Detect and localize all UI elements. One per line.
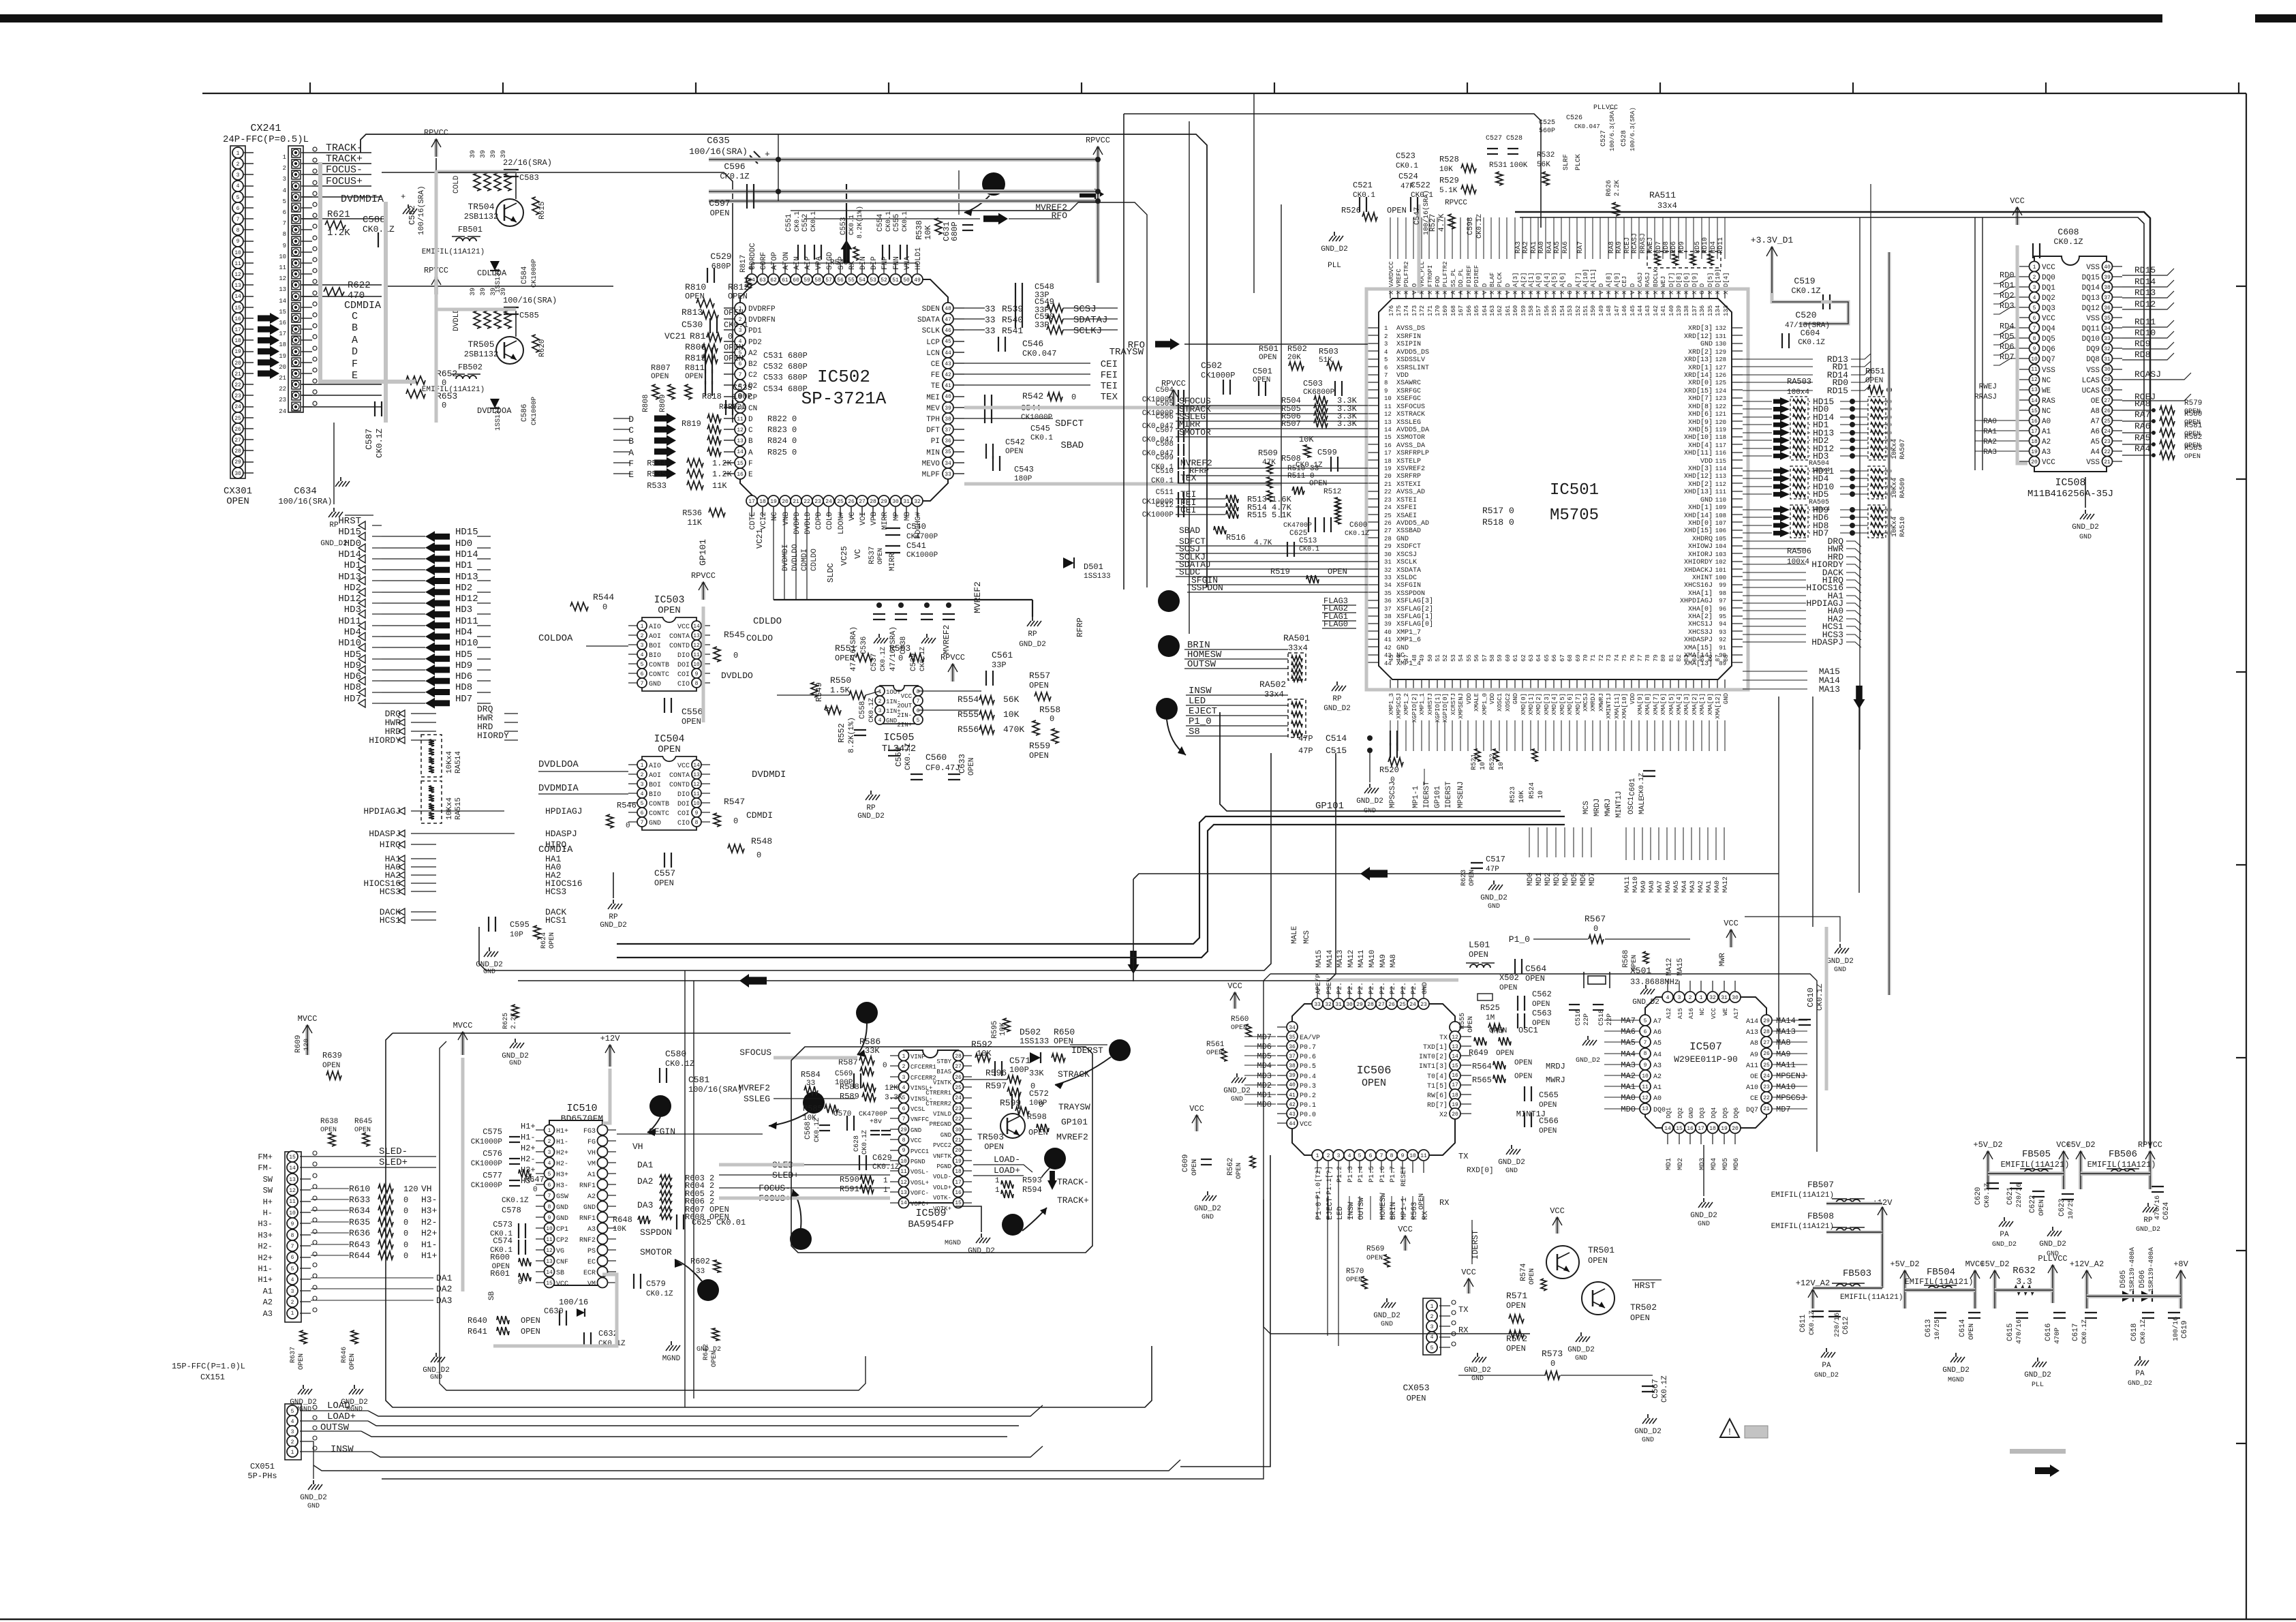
- svg-text:22: 22: [1763, 1095, 1770, 1101]
- svg-text:100P: 100P: [1009, 1065, 1029, 1075]
- svg-text:0: 0: [533, 1186, 538, 1194]
- svg-text:SLED+: SLED+: [379, 1157, 408, 1168]
- svg-text:C547: C547: [1413, 207, 1422, 225]
- svg-text:XMRDJ: XMRDJ: [1590, 693, 1597, 711]
- svg-text:H3+: H3+: [556, 1172, 568, 1179]
- svg-text:0: 0: [1050, 714, 1054, 724]
- svg-text:RX: RX: [848, 260, 857, 270]
- svg-text:95: 95: [1719, 613, 1726, 620]
- svg-text:RP: RP: [866, 804, 876, 812]
- svg-text:HD11: HD11: [338, 616, 361, 627]
- svg-text:10Kx4: 10Kx4: [446, 797, 454, 820]
- svg-text:R822 0: R822 0: [767, 414, 797, 424]
- svg-text:165: 165: [1473, 305, 1480, 316]
- svg-text:11: 11: [289, 1199, 296, 1205]
- svg-text:10: 10: [1384, 395, 1392, 402]
- svg-text:1: 1: [236, 151, 240, 157]
- svg-text:RA2: RA2: [1522, 241, 1530, 254]
- svg-text:OPEN: OPEN: [682, 717, 701, 726]
- svg-text:AVDD5_DS: AVDD5_DS: [1396, 349, 1429, 356]
- svg-text:173: 173: [1411, 305, 1418, 316]
- svg-text:R532: R532: [1537, 151, 1555, 159]
- svg-text:H1-: H1-: [556, 1139, 568, 1146]
- svg-text:HOMESW: HOMESW: [1379, 1193, 1388, 1220]
- svg-text:OPEN: OPEN: [521, 1327, 540, 1336]
- svg-text:TR503: TR503: [977, 1132, 1004, 1142]
- svg-text:C596: C596: [724, 162, 745, 172]
- svg-text:OPEN: OPEN: [654, 878, 674, 888]
- svg-text:21: 21: [793, 499, 799, 505]
- svg-text:XMD[5]: XMD[5]: [1559, 693, 1566, 715]
- svg-text:0: 0: [403, 1251, 408, 1261]
- vertical bus x2745: [1870, 184, 1871, 383]
- svg-text:CONTA: CONTA: [669, 633, 690, 641]
- svg-text:R548: R548: [751, 836, 772, 846]
- svg-text:STBY: STBY: [936, 1058, 951, 1065]
- svg-text:XMA[5]: XMA[5]: [1668, 693, 1675, 715]
- svg-text:XSFLAG[3]: XSFLAG[3]: [1396, 597, 1433, 605]
- svg-text:CK0.1Z: CK0.1Z: [1345, 530, 1369, 538]
- svg-text:AOI: AOI: [649, 772, 661, 780]
- svg-text:134: 134: [1715, 305, 1721, 316]
- svg-text:76: 76: [1629, 654, 1636, 662]
- svg-text:21: 21: [2104, 459, 2111, 465]
- svg-text:XRD[13]: XRD[13]: [1684, 356, 1713, 364]
- svg-text:HCS3: HCS3: [545, 887, 566, 897]
- svg-text:MD6: MD6: [1580, 872, 1588, 886]
- svg-text:15: 15: [1384, 434, 1392, 441]
- svg-text:MD2: MD2: [1677, 1158, 1685, 1170]
- svg-text:DQ9: DQ9: [2086, 346, 2100, 354]
- svg-text:DQ14: DQ14: [2082, 284, 2100, 292]
- svg-text:0: 0: [403, 1206, 408, 1216]
- svg-text:CONTB: CONTB: [649, 662, 669, 669]
- svg-text:SCLKJ: SCLKJ: [1073, 326, 1102, 337]
- svg-text:37: 37: [1289, 1054, 1296, 1060]
- svg-text:43: 43: [945, 361, 951, 367]
- svg-text:H3-: H3-: [421, 1195, 437, 1205]
- svg-text:2.2K: 2.2K: [1614, 180, 1621, 196]
- svg-text:GND: GND: [1700, 341, 1713, 348]
- svg-text:XRWEJ: XRWEJ: [1660, 276, 1667, 294]
- svg-text:B: B: [628, 436, 634, 446]
- svg-text:6: 6: [641, 810, 644, 816]
- svg-text:COLD: COLD: [453, 175, 461, 194]
- svg-text:25: 25: [2104, 418, 2111, 425]
- svg-text:MD0: MD0: [1527, 872, 1535, 886]
- svg-text:25: 25: [234, 416, 241, 422]
- svg-text:141: 141: [1660, 305, 1667, 316]
- svg-text:DQ12: DQ12: [2082, 305, 2100, 313]
- svg-text:VOFC+: VOFC+: [910, 1201, 929, 1208]
- svg-text:H1+: H1+: [421, 1251, 438, 1261]
- svg-text:A1: A1: [1653, 1084, 1662, 1092]
- svg-text:XSFGIN: XSFGIN: [1396, 582, 1421, 590]
- svg-text:7: 7: [283, 220, 286, 227]
- svg-text:A0: A0: [1653, 1095, 1662, 1103]
- svg-text:DQ6: DQ6: [1733, 1107, 1740, 1118]
- wire box around TR blocks: [382, 172, 733, 423]
- svg-text:7: 7: [739, 372, 742, 378]
- svg-text:XHINT: XHINT: [1692, 575, 1713, 582]
- svg-text:HD14: HD14: [338, 549, 361, 560]
- svg-text:10Kx4: 10Kx4: [1891, 439, 1899, 459]
- R520 0: [1388, 758, 1403, 766]
- svg-text:R819: R819: [682, 419, 701, 429]
- svg-text:GND_D2: GND_D2: [1019, 641, 1046, 649]
- svg-text:C514: C514: [1326, 733, 1347, 744]
- svg-text:FB507: FB507: [1807, 1180, 1834, 1190]
- svg-text:33: 33: [985, 326, 996, 336]
- svg-text:DQ7: DQ7: [1746, 1107, 1758, 1114]
- svg-text:PA: PA: [2000, 1231, 2009, 1239]
- svg-text:MD0: MD0: [1257, 1100, 1272, 1110]
- svg-text:MPSENJ: MPSENJ: [1457, 781, 1465, 808]
- svg-text:A2: A2: [263, 1298, 273, 1307]
- svg-text:R609: R609: [294, 1035, 303, 1053]
- svg-text:38: 38: [1289, 1063, 1296, 1069]
- svg-text:VCC: VCC: [901, 693, 913, 700]
- svg-text:SB: SB: [556, 1270, 564, 1277]
- svg-text:129: 129: [1715, 349, 1726, 356]
- svg-text:78: 78: [1644, 654, 1651, 662]
- svg-text:100/16(SRA): 100/16(SRA): [1422, 190, 1430, 235]
- svg-text:GND_D2: GND_D2: [1373, 1312, 1400, 1320]
- svg-text:102: 102: [1715, 559, 1726, 566]
- svg-text:XSCLK: XSCLK: [1396, 559, 1417, 566]
- svg-text:112: 112: [1715, 481, 1726, 488]
- svg-text:MP1-1: MP1-1: [1400, 1197, 1409, 1220]
- svg-text:27: 27: [1763, 1040, 1770, 1046]
- svg-text:113: 113: [1715, 473, 1726, 480]
- svg-text:MVREF2: MVREF2: [973, 581, 983, 613]
- svg-text:38: 38: [945, 416, 951, 423]
- svg-text:A10: A10: [1746, 1084, 1758, 1092]
- svg-text:A1: A1: [587, 1172, 596, 1179]
- svg-text:61: 61: [1512, 654, 1519, 662]
- svg-text:XHD[13]: XHD[13]: [1684, 488, 1713, 496]
- svg-text:6: 6: [291, 1255, 294, 1261]
- svg-text:CDLDO: CDLDO: [753, 616, 782, 627]
- svg-text:10: 10: [234, 250, 241, 256]
- svg-text:R503: R503: [1319, 347, 1338, 356]
- svg-text:RWEJ: RWEJ: [1647, 237, 1655, 254]
- svg-text:XRD[14]: XRD[14]: [1684, 371, 1713, 380]
- gray wires IC502 right: [964, 406, 1281, 410]
- svg-text:74: 74: [1614, 654, 1621, 662]
- svg-text:MD6: MD6: [1733, 1158, 1741, 1170]
- svg-text:71: 71: [1590, 654, 1597, 662]
- svg-text:100/16: 100/16: [559, 1298, 588, 1307]
- svg-text:MD5: MD5: [1722, 1158, 1730, 1170]
- svg-text:HIRQ: HIRQ: [380, 840, 401, 850]
- svg-text:GND_D2: GND_D2: [2136, 1226, 2160, 1234]
- svg-text:33.8688MHz: 33.8688MHz: [1630, 977, 1679, 987]
- svg-text:10K: 10K: [923, 225, 933, 240]
- svg-text:100K: 100K: [1510, 162, 1528, 170]
- svg-text:MP: MP: [893, 512, 901, 521]
- svg-text:R639: R639: [322, 1051, 342, 1060]
- svg-text:CFCERR1: CFCERR1: [910, 1064, 936, 1071]
- connector CX151: [285, 1152, 301, 1322]
- svg-text:20: 20: [279, 364, 286, 371]
- svg-text:6: 6: [236, 206, 240, 212]
- svg-text:VSS: VSS: [2086, 315, 2100, 323]
- svg-text:OPEN: OPEN: [1231, 1024, 1247, 1032]
- svg-text:RA4: RA4: [2134, 444, 2151, 454]
- svg-text:SSLEG: SSLEG: [744, 1094, 770, 1104]
- svg-text:72: 72: [1598, 654, 1605, 662]
- svg-text:150: 150: [1590, 305, 1597, 316]
- IC501 right pins: [1732, 327, 1743, 328]
- svg-text:15: 15: [737, 461, 744, 467]
- svg-text:W29EE011P-90: W29EE011P-90: [1674, 1054, 1738, 1065]
- svg-text:A14: A14: [1746, 1018, 1758, 1026]
- svg-text:VSS: VSS: [2086, 367, 2100, 375]
- svg-text:51: 51: [1435, 654, 1441, 662]
- memory IC507 body: [1645, 997, 1766, 1128]
- svg-text:42: 42: [1289, 1102, 1296, 1108]
- svg-text:15: 15: [234, 305, 241, 311]
- svg-text:15: 15: [1452, 1063, 1458, 1069]
- svg-text:XHCS16J: XHCS16J: [1684, 582, 1713, 590]
- top black bar right segment: [2255, 14, 2296, 22]
- svg-text:159: 159: [1520, 305, 1527, 316]
- svg-text:XSFOCUS: XSFOCUS: [1396, 403, 1425, 411]
- svg-text:33: 33: [2104, 336, 2111, 342]
- svg-text:XHCS1J: XHCS1J: [1688, 621, 1713, 628]
- svg-text:VCC: VCC: [1724, 919, 1739, 928]
- svg-text:XOSC1: XOSC1: [1497, 693, 1503, 711]
- svg-text:12: 12: [1384, 411, 1392, 418]
- transistor TR502: [1582, 1282, 1614, 1315]
- svg-text:GND: GND: [1505, 1167, 1518, 1175]
- svg-text:16: 16: [1452, 1073, 1458, 1079]
- svg-text:100x4: 100x4: [1787, 388, 1809, 397]
- svg-text:6: 6: [548, 1182, 551, 1189]
- svg-text:C609: C609: [1182, 1154, 1190, 1172]
- svg-text:2IN+: 2IN+: [897, 722, 912, 729]
- svg-text:161: 161: [1505, 305, 1512, 316]
- svg-text:P0.0: P0.0: [1300, 1112, 1316, 1119]
- svg-text:0: 0: [626, 822, 630, 830]
- svg-text:50: 50: [1427, 654, 1434, 662]
- svg-text:GND: GND: [307, 1503, 320, 1510]
- svg-text:44: 44: [945, 350, 951, 356]
- svg-text:C599: C599: [1317, 448, 1337, 457]
- capacitor C556 OPEN: [664, 698, 665, 713]
- svg-text:9: 9: [291, 1221, 294, 1227]
- svg-text:27: 27: [1378, 1002, 1385, 1008]
- svg-text:MA0: MA0: [1714, 881, 1721, 893]
- svg-text:10Kx4: 10Kx4: [1891, 517, 1899, 537]
- svg-text:INSW: INSW: [1347, 1202, 1356, 1220]
- svg-text:6: 6: [917, 708, 920, 714]
- svg-text:D: D: [352, 346, 358, 358]
- svg-text:6: 6: [1369, 1153, 1373, 1159]
- gray bus DVDMDIA vertical: [384, 202, 388, 423]
- svg-text:5: 5: [548, 1172, 551, 1178]
- svg-text:MCS: MCS: [1303, 930, 1311, 944]
- svg-text:XSMOTOR: XSMOTOR: [1396, 434, 1425, 442]
- svg-text:P0.7: P0.7: [1300, 1044, 1316, 1052]
- svg-text:11: 11: [279, 264, 286, 271]
- svg-text:31: 31: [1384, 559, 1392, 566]
- svg-text:24: 24: [955, 1095, 962, 1101]
- svg-text:P1.7: P1.7: [1390, 1166, 1397, 1182]
- svg-text:XMD[7]: XMD[7]: [1575, 693, 1582, 715]
- svg-text:39: 39: [480, 150, 487, 158]
- svg-text:AVDD5_AD: AVDD5_AD: [1396, 520, 1429, 527]
- svg-text:10K: 10K: [1003, 709, 1020, 720]
- svg-text:MA4: MA4: [1621, 1050, 1636, 1059]
- svg-text:NC: NC: [2042, 408, 2051, 416]
- MGND ground IC509: [955, 1206, 981, 1232]
- svg-text:RA502: RA502: [1259, 679, 1286, 690]
- svg-text:XRA[4]: XRA[4]: [1544, 273, 1550, 294]
- svg-text:OPEN: OPEN: [1514, 1073, 1532, 1081]
- svg-text:1: 1: [291, 1450, 294, 1456]
- svg-text:CK1000P: CK1000P: [1021, 414, 1053, 422]
- svg-text:CK0.1: CK0.1: [1353, 192, 1375, 200]
- svg-text:19: 19: [1452, 1102, 1458, 1108]
- svg-text:C517: C517: [1486, 855, 1505, 864]
- svg-text:PLL: PLL: [1328, 262, 1341, 270]
- svg-text:58: 58: [814, 277, 821, 284]
- svg-text:C534 680P: C534 680P: [763, 384, 808, 394]
- svg-text:XMA[15]: XMA[15]: [1684, 644, 1713, 652]
- transistor block TR505: [434, 277, 438, 294]
- svg-text:101: 101: [1715, 567, 1726, 574]
- svg-text:H3-: H3-: [556, 1182, 568, 1190]
- svg-text:11: 11: [546, 1237, 553, 1243]
- svg-text:OPEN: OPEN: [984, 1142, 1004, 1152]
- svg-text:39: 39: [470, 150, 477, 158]
- svg-text:C568: C568: [804, 1122, 812, 1139]
- svg-text:13: 13: [234, 283, 241, 289]
- svg-text:DQ5: DQ5: [2042, 335, 2055, 343]
- svg-text:H2-: H2-: [556, 1161, 568, 1168]
- svg-text:R538: R538: [915, 220, 924, 240]
- svg-text:3: 3: [2033, 285, 2036, 291]
- svg-text:C526: C526: [1566, 114, 1582, 122]
- svg-text:OPEN: OPEN: [1532, 1000, 1550, 1009]
- svg-text:CK1000P: CK1000P: [471, 1160, 503, 1168]
- svg-text:FB504: FB504: [1927, 1267, 1955, 1278]
- svg-text:OPEN: OPEN: [1328, 567, 1347, 577]
- svg-text:MA5: MA5: [1621, 1038, 1636, 1047]
- svg-text:XHD[11]: XHD[11]: [1684, 449, 1713, 457]
- svg-text:DOI: DOI: [677, 662, 690, 669]
- svg-text:C629: C629: [872, 1153, 892, 1163]
- svg-text:XMD[0]: XMD[0]: [1520, 693, 1527, 715]
- svg-text:XHIORJ: XHIORJ: [1688, 551, 1713, 559]
- svg-text:A9: A9: [1750, 1052, 1758, 1059]
- svg-text:32: 32: [1709, 995, 1716, 1001]
- svg-text:GP101: GP101: [1315, 801, 1344, 812]
- svg-text:PLLVCC: PLLVCC: [2038, 1254, 2067, 1264]
- svg-text:24: 24: [1384, 504, 1392, 511]
- svg-text:3: 3: [1678, 995, 1681, 1001]
- ground below IC504: [613, 900, 614, 904]
- svg-text:INSW: INSW: [331, 1444, 354, 1455]
- svg-text:CONTA: CONTA: [669, 772, 690, 780]
- svg-text:R523: R523: [1510, 786, 1517, 803]
- svg-text:XSDATA: XSDATA: [1396, 567, 1421, 575]
- svg-text:16: 16: [279, 320, 286, 326]
- svg-text:FB502: FB502: [458, 363, 483, 372]
- svg-text:0: 0: [602, 602, 607, 612]
- svg-text:63: 63: [759, 277, 766, 284]
- svg-text:22: 22: [2104, 449, 2111, 455]
- svg-text:CK0.1: CK0.1: [794, 211, 801, 232]
- svg-text:DQ7: DQ7: [2042, 356, 2055, 364]
- svg-text:5P-PHs: 5P-PHs: [247, 1471, 277, 1481]
- svg-text:R824 0: R824 0: [767, 436, 797, 446]
- svg-text:10K: 10K: [613, 1225, 626, 1234]
- svg-text:GND_D2: GND_D2: [2072, 523, 2099, 532]
- svg-text:XRD[8]: XRD[8]: [1676, 273, 1683, 294]
- svg-text:D506: D506: [2139, 1270, 2147, 1288]
- svg-text:GND_D2: GND_D2: [300, 1494, 327, 1502]
- svg-text:XGPIO[1]: XGPIO[1]: [1435, 693, 1441, 722]
- svg-text:HRST: HRST: [1634, 1281, 1655, 1291]
- svg-text:0: 0: [1593, 924, 1598, 934]
- svg-text:EA/VP: EA/VP: [1300, 1034, 1320, 1042]
- svg-text:160: 160: [1512, 305, 1519, 316]
- svg-text:62: 62: [1520, 654, 1527, 662]
- svg-text:30: 30: [1346, 1002, 1353, 1008]
- svg-text:TEI: TEI: [1101, 381, 1118, 392]
- svg-text:15: 15: [289, 1154, 296, 1161]
- svg-text:CK0.1Z: CK0.1Z: [2081, 1319, 2089, 1344]
- svg-text:XSTRACK: XSTRACK: [1396, 411, 1425, 418]
- svg-text:1: 1: [2033, 264, 2036, 271]
- svg-text:XTBLAF: XTBLAF: [1489, 273, 1496, 294]
- svg-text:MA15: MA15: [1677, 958, 1685, 976]
- svg-text:RX: RX: [1422, 1210, 1430, 1220]
- svg-text:100/6.3(SRA): 100/6.3(SRA): [1609, 107, 1616, 151]
- svg-text:BD6570FM: BD6570FM: [561, 1114, 603, 1124]
- svg-text:OPEN: OPEN: [1489, 1027, 1507, 1035]
- svg-text:60: 60: [793, 277, 799, 284]
- svg-text:R518 0: R518 0: [1482, 517, 1514, 527]
- svg-text:175: 175: [1396, 305, 1403, 316]
- svg-text:APE/P: APE/P: [1315, 974, 1323, 994]
- svg-text:CK4700P: CK4700P: [1283, 522, 1312, 530]
- fat down arrow TRACK: [1047, 1171, 1057, 1190]
- svg-text:XMP1_0: XMP1_0: [1482, 693, 1488, 715]
- svg-text:0: 0: [883, 1062, 887, 1070]
- svg-text:CK0.1: CK0.1: [848, 215, 856, 235]
- svg-text:VM: VM: [587, 1281, 596, 1288]
- svg-text:XRA[5]: XRA[5]: [1551, 273, 1558, 294]
- svg-text:20: 20: [2031, 459, 2038, 465]
- svg-text:1.2K: 1.2K: [712, 459, 733, 468]
- svg-text:H1+: H1+: [521, 1122, 536, 1131]
- svg-text:XMD[1]: XMD[1]: [1528, 693, 1535, 715]
- svg-text:RA514: RA514: [455, 751, 463, 774]
- svg-text:XRD[4]: XRD[4]: [1723, 273, 1730, 294]
- svg-text:DA3: DA3: [436, 1296, 452, 1306]
- svg-text:20: 20: [1384, 473, 1392, 480]
- svg-text:24: 24: [825, 499, 832, 505]
- svg-text:XRD[3]: XRD[3]: [1688, 324, 1713, 333]
- svg-text:+8v: +8v: [870, 1118, 882, 1126]
- svg-text:GND: GND: [1512, 693, 1519, 704]
- svg-text:2: 2: [291, 1300, 294, 1306]
- svg-text:8: 8: [1644, 1051, 1647, 1057]
